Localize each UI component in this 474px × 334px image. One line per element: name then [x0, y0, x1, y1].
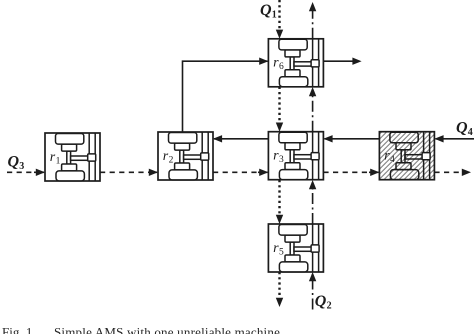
wire dash-dot r6 to top output — [312, 10, 314, 39]
svg-text:Q: Q — [456, 120, 468, 137]
wire dotted Q1 into r6 — [278, 0, 280, 31]
svg-text:2: 2 — [169, 155, 174, 165]
wire dash-dot r5 to r3 — [312, 182, 314, 224]
svg-text:2: 2 — [327, 301, 332, 312]
svg-text:Q: Q — [8, 154, 20, 171]
svg-text:4: 4 — [390, 155, 395, 165]
wire dashed r3 to r4 — [323, 171, 378, 173]
machine r4 (unavailable, hatched) — [379, 132, 434, 180]
machine r2 — [158, 132, 213, 180]
svg-text:Q: Q — [315, 293, 327, 310]
wire dotted r6 to r3 — [278, 87, 280, 124]
node label Q4 — [456, 120, 473, 139]
caption Fig. 1 — [2, 324, 280, 334]
wire solid Q4 input to r4 — [436, 138, 474, 140]
svg-text:4: 4 — [468, 127, 473, 138]
wire dashed r4 to output — [434, 171, 462, 173]
wire dashed r2 to r3 — [213, 171, 267, 173]
node label Q3 — [8, 154, 25, 173]
svg-text:3: 3 — [279, 155, 284, 165]
svg-text:1: 1 — [272, 10, 277, 21]
wire solid r3 to r2 (backflow) — [214, 138, 268, 140]
machine r1 — [45, 133, 100, 181]
svg-text:5: 5 — [279, 247, 284, 257]
wire main dashed line Q3 to r1 — [7, 171, 44, 173]
svg-text:1: 1 — [56, 156, 61, 166]
svg-text:3: 3 — [19, 161, 24, 172]
wire dotted r5 to bottom output — [278, 272, 280, 299]
wire dash-dot bottom into r5 — [312, 274, 314, 310]
node label Q1 — [260, 2, 277, 21]
svg-text:Q: Q — [260, 2, 272, 19]
wire solid r4 to r3 (backflow) — [325, 138, 380, 140]
node label Q2 — [315, 293, 332, 312]
machine r3 — [268, 132, 323, 180]
machine r6 — [268, 39, 323, 87]
wire dashed r1 to r2 — [100, 171, 157, 173]
wire solid r6 output — [323, 60, 352, 62]
svg-text:6: 6 — [279, 62, 284, 72]
svg-text:Fig. 1.: Fig. 1. — [2, 324, 36, 334]
wire dotted r3 to r5 — [278, 180, 280, 217]
wire solid r2 top loop to r6 — [183, 61, 268, 132]
svg-text:Simple AMS with one unreliable: Simple AMS with one unreliable machine — [54, 324, 280, 334]
machine r5 — [268, 224, 323, 272]
wire dash-dot r3 to r6 — [312, 89, 314, 132]
